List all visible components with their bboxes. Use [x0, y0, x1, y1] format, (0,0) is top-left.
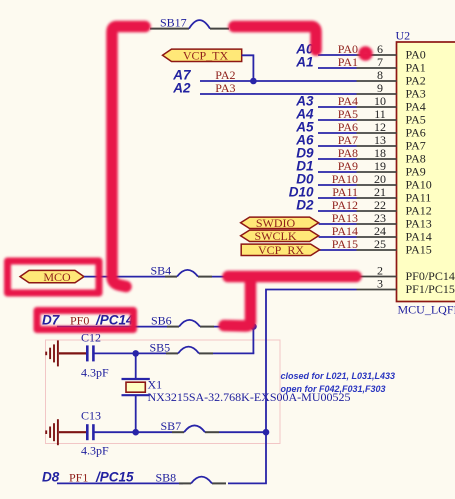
svg-text:11: 11: [374, 107, 386, 121]
svg-text:A2: A2: [172, 80, 191, 95]
svg-text:U2: U2: [396, 29, 411, 43]
svg-text:PA13: PA13: [406, 216, 432, 230]
svg-text:PA5: PA5: [406, 112, 426, 126]
svg-text:19: 19: [374, 159, 386, 173]
wire C12 to node: [95, 352, 136, 354]
wire C13 to node: [95, 431, 136, 433]
svg-text:PA0: PA0: [338, 42, 358, 56]
wire node to SB5: [136, 352, 166, 354]
svg-text:PA3: PA3: [406, 86, 426, 100]
pin 8 (PA2) stub: [357, 80, 397, 82]
crystal circuit highlight box: [46, 340, 281, 444]
pin 22 (PA12) stub: [357, 210, 397, 212]
pin 21 (PA11) stub: [357, 197, 397, 199]
wire SB17 right: [210, 28, 229, 30]
svg-text:SWCLK: SWCLK: [255, 229, 297, 243]
pin 7 (PA1) stub: [357, 67, 397, 69]
svg-text:SB7: SB7: [161, 419, 182, 433]
svg-text:PA11: PA11: [332, 185, 358, 199]
svg-text:8: 8: [377, 68, 383, 82]
svg-text:PA9: PA9: [406, 164, 426, 178]
solder bridge SB5: [150, 340, 214, 354]
port SWCLK: [241, 229, 319, 243]
pin 25 (PA15) stub: [357, 249, 397, 251]
svg-text:PA15: PA15: [332, 237, 358, 251]
svg-text:PA2: PA2: [215, 68, 235, 82]
junction OSC32_OUT node: [132, 429, 139, 436]
crystal X1: [122, 378, 163, 396]
wire net PA4: [318, 106, 357, 108]
marker stroke PF0: [224, 277, 356, 327]
wire VCP_TX to PA2 net: [242, 55, 254, 81]
capacitor C12 plates: [81, 331, 101, 362]
svg-text:21: 21: [374, 185, 386, 199]
wire net PA13: [319, 223, 357, 225]
wire SB5 to vertical: [213, 352, 254, 354]
svg-text:D7: D7: [42, 313, 61, 328]
svg-text:PA12: PA12: [406, 203, 432, 217]
junction OSC32_IN node: [132, 350, 139, 357]
junction SB6/PF0: [250, 323, 257, 330]
wire net PA5: [318, 119, 357, 121]
svg-text:23: 23: [374, 211, 386, 225]
svg-text:3: 3: [377, 277, 383, 291]
svg-text:PA7: PA7: [338, 133, 358, 147]
svg-text:PA12: PA12: [332, 198, 358, 212]
svg-text:4.3pF: 4.3pF: [81, 366, 109, 380]
svg-text:7: 7: [377, 55, 383, 69]
svg-text:PA9: PA9: [338, 159, 358, 173]
wire net PA2: [200, 80, 357, 82]
solder bridge SB8: [156, 470, 227, 484]
svg-text:PA3: PA3: [215, 81, 235, 95]
ground symbol: [46, 419, 86, 445]
wire net PA15: [319, 249, 357, 251]
wire net PA3: [200, 93, 357, 95]
wire PF1 from pin3: [228, 290, 357, 484]
svg-text:PA13: PA13: [332, 211, 358, 225]
svg-text:PA5: PA5: [338, 107, 358, 121]
svg-text:PA0: PA0: [406, 47, 426, 61]
wire D7 to SB6: [57, 326, 167, 328]
pin 11 (PA5) stub: [357, 119, 397, 121]
pin 20 (PA10) stub: [357, 184, 397, 186]
svg-text:PA7: PA7: [406, 138, 426, 152]
svg-text:10: 10: [374, 94, 386, 108]
svg-text:PA15: PA15: [406, 242, 432, 256]
svg-text:PA10: PA10: [406, 177, 432, 191]
marker box D7/PF0/PC14: [37, 311, 134, 330]
svg-text:PA1: PA1: [338, 55, 358, 69]
svg-text:PF0: PF0: [70, 314, 89, 328]
pin 12 (PA6) stub: [357, 132, 397, 134]
solder bridge SB7: [161, 419, 220, 433]
svg-text:PA6: PA6: [406, 125, 426, 139]
svg-text:24: 24: [374, 224, 386, 238]
pin 6 (PA0) stub: [357, 54, 397, 56]
solder bridge SB6: [151, 314, 214, 328]
svg-text:PA14: PA14: [332, 224, 358, 238]
svg-text:13: 13: [374, 133, 386, 147]
junction SB7/PF1: [263, 429, 270, 436]
wire SB6 to junction: [214, 326, 253, 328]
svg-text:2: 2: [377, 264, 383, 278]
svg-text:6: 6: [377, 42, 383, 56]
svg-text:VCP_RX: VCP_RX: [258, 243, 304, 257]
svg-text:D2: D2: [296, 197, 314, 212]
wire PF0 vertical branch: [252, 277, 254, 354]
wire net PA14: [319, 236, 357, 238]
svg-text:SB5: SB5: [150, 340, 171, 354]
svg-text:PA8: PA8: [338, 146, 358, 160]
marker stroke top-right: [234, 27, 316, 51]
pin 24 (PA14) stub: [357, 236, 397, 238]
svg-text:A1: A1: [295, 54, 313, 69]
junction PA2/VCP_TX: [250, 78, 257, 85]
svg-text:PF0/PC14: PF0/PC14: [406, 269, 455, 283]
svg-text:PA2: PA2: [406, 73, 426, 87]
svg-text:4.3pF: 4.3pF: [81, 444, 109, 458]
wire net PA7: [318, 145, 357, 147]
pin 3 (PF1/PC15) stub: [357, 289, 397, 291]
port MCO: [20, 270, 84, 284]
svg-text:/PC14: /PC14: [95, 313, 134, 328]
svg-text:22: 22: [374, 198, 386, 212]
port VCP_TX: [163, 49, 242, 63]
svg-text:PA1: PA1: [406, 60, 426, 74]
port VCP_RX: [241, 243, 320, 257]
pin 18 (PA8) stub: [357, 158, 397, 160]
port SWDIO: [241, 216, 319, 230]
wire MCO to SB4: [84, 276, 165, 278]
svg-text:MCO: MCO: [43, 270, 71, 284]
wire crystal bottom: [135, 395, 137, 432]
wire SB17 left: [150, 28, 189, 30]
svg-text:VCP_TX: VCP_TX: [183, 49, 229, 63]
wire net PA0: [318, 54, 357, 56]
ground symbol: [46, 340, 86, 366]
wire node to SB7: [136, 431, 172, 433]
wire net PA8: [318, 158, 357, 160]
marker box MCO: [8, 261, 100, 293]
svg-text:18: 18: [374, 146, 386, 160]
wire net PA9: [318, 171, 357, 173]
svg-text:SWDIO: SWDIO: [256, 216, 296, 230]
capacitor C13 plates: [81, 409, 101, 441]
svg-text:C13: C13: [81, 409, 101, 423]
wire net PA10: [318, 184, 357, 186]
svg-text:PA6: PA6: [338, 120, 358, 134]
svg-text:PA4: PA4: [406, 99, 426, 113]
MCU U2 body: [397, 42, 455, 302]
pin 19 (PA9) stub: [357, 171, 397, 173]
svg-text:PA4: PA4: [338, 94, 358, 108]
pin 10 (PA4) stub: [357, 106, 397, 108]
svg-text:9: 9: [377, 81, 383, 95]
svg-text:PA8: PA8: [406, 151, 426, 165]
wire SB4 to pin2: [212, 276, 357, 278]
svg-text:SB8: SB8: [156, 470, 177, 484]
svg-text:/PC15: /PC15: [95, 470, 134, 485]
svg-text:PA11: PA11: [406, 190, 432, 204]
svg-text:25: 25: [374, 237, 386, 251]
svg-text:SB17: SB17: [160, 15, 187, 29]
wire net PA1: [318, 67, 357, 69]
wire SB7 to junction: [219, 431, 266, 433]
svg-text:SB6: SB6: [151, 314, 172, 328]
wire net PA6: [318, 132, 357, 134]
pin 2 (PF0/PC14) stub: [357, 276, 397, 278]
svg-text:open for F042,F031,F303: open for F042,F031,F303: [281, 384, 386, 394]
svg-text:PA14: PA14: [406, 229, 432, 243]
wire D8 to SB8: [57, 482, 183, 484]
svg-text:SB4: SB4: [151, 263, 172, 277]
marker stroke top-left: [112, 27, 145, 287]
wire net PA11: [318, 197, 357, 199]
pin 23 (PA13) stub: [357, 223, 397, 225]
svg-text:20: 20: [374, 172, 386, 186]
svg-text:D8: D8: [42, 470, 60, 485]
marker dot PA0: [362, 50, 369, 57]
pin 13 (PA7) stub: [357, 145, 397, 147]
svg-text:MCU_LQFP32: MCU_LQFP32: [398, 303, 455, 317]
svg-text:PA10: PA10: [332, 172, 358, 186]
svg-text:12: 12: [374, 120, 386, 134]
wire net PA12: [318, 210, 357, 212]
solder bridge SB4: [151, 263, 213, 277]
wire crystal top: [135, 353, 137, 379]
solder bridge SB17 arc: [189, 20, 210, 29]
pin 9 (PA3) stub: [357, 93, 397, 95]
svg-text:PF1/PC15: PF1/PC15: [406, 282, 455, 296]
svg-text:closed for L021, L031,L433: closed for L021, L031,L433: [281, 371, 396, 381]
